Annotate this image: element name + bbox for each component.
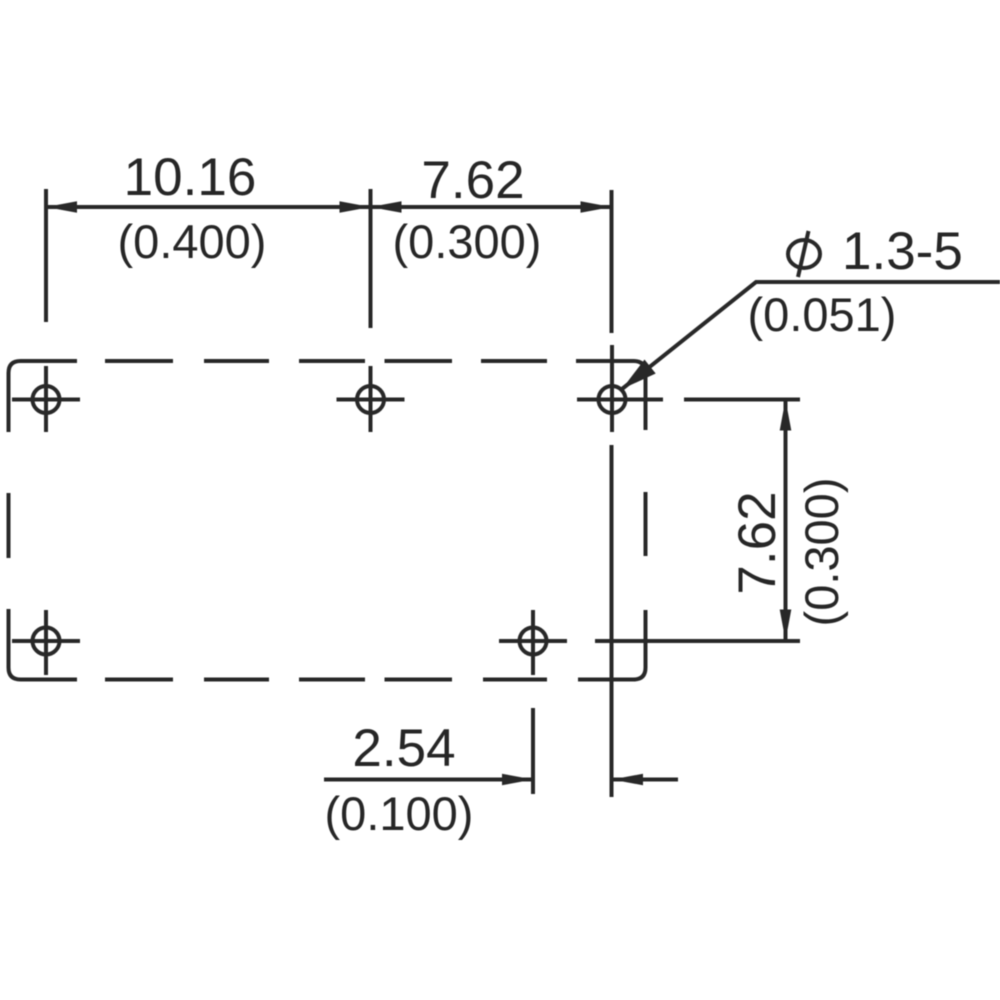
outline bottom-left corner <box>9 609 78 680</box>
arrowhead 7.62 vertical up <box>780 400 792 431</box>
outline right edge dash <box>644 492 648 556</box>
extension line right x=611.5 lower <box>610 445 614 797</box>
outline top-right corner <box>576 361 646 430</box>
hole H2 top-middle <box>337 366 405 432</box>
label phi symbol <box>788 231 820 277</box>
svg-text:1.3-5: 1.3-5 <box>842 222 963 281</box>
hole H3 top-right <box>577 345 663 432</box>
dimension line 2.54 left part <box>324 778 533 782</box>
extension line y=399 rightward <box>684 398 800 402</box>
extension line y=641 rightward <box>595 639 800 643</box>
hole H1 top-left <box>12 366 80 432</box>
arrowhead 10.16 left <box>46 201 77 213</box>
hole H5 bottom-middle <box>499 610 567 675</box>
arrowhead leader <box>622 360 656 390</box>
svg-text:(0.300): (0.300) <box>393 215 542 268</box>
svg-text:7.62: 7.62 <box>728 491 787 594</box>
extension line middle x=370.5 <box>369 189 373 328</box>
hole H4 bottom-left <box>12 610 80 675</box>
leader line <box>622 282 1000 389</box>
extension line left x=46 <box>44 189 48 322</box>
dimension line 7.62 top <box>371 205 612 209</box>
outline left edge dash <box>7 493 11 558</box>
outline top-left corner <box>9 361 78 432</box>
svg-text:(0.051): (0.051) <box>748 288 897 341</box>
extension line right x=611.5 upper <box>610 190 614 333</box>
arrowhead 10.16 right <box>340 201 371 213</box>
svg-text:7.62: 7.62 <box>421 151 524 210</box>
outline top edge dashes <box>105 359 547 363</box>
svg-text:10.16: 10.16 <box>124 148 257 207</box>
arrowhead 7.62 vertical down <box>780 610 792 641</box>
arrowhead 2.54 left <box>502 774 533 786</box>
outline bottom edge dashes <box>105 678 547 682</box>
svg-text:2.54: 2.54 <box>352 719 455 778</box>
svg-text:(0.300): (0.300) <box>795 478 848 627</box>
dimension line 7.62 vertical <box>784 400 788 641</box>
arrowhead 7.62 top-right <box>581 201 612 213</box>
svg-text:(0.100): (0.100) <box>325 787 474 840</box>
outline bottom-right corner <box>578 610 646 680</box>
arrowhead 7.62 top-left <box>371 201 402 213</box>
dimension line 2.54 right part <box>612 778 678 782</box>
dimension line 10.16 <box>46 205 371 209</box>
arrowhead 2.54 right <box>612 774 643 786</box>
svg-text:(0.400): (0.400) <box>118 215 267 268</box>
extension line x=533 lower <box>531 708 535 794</box>
